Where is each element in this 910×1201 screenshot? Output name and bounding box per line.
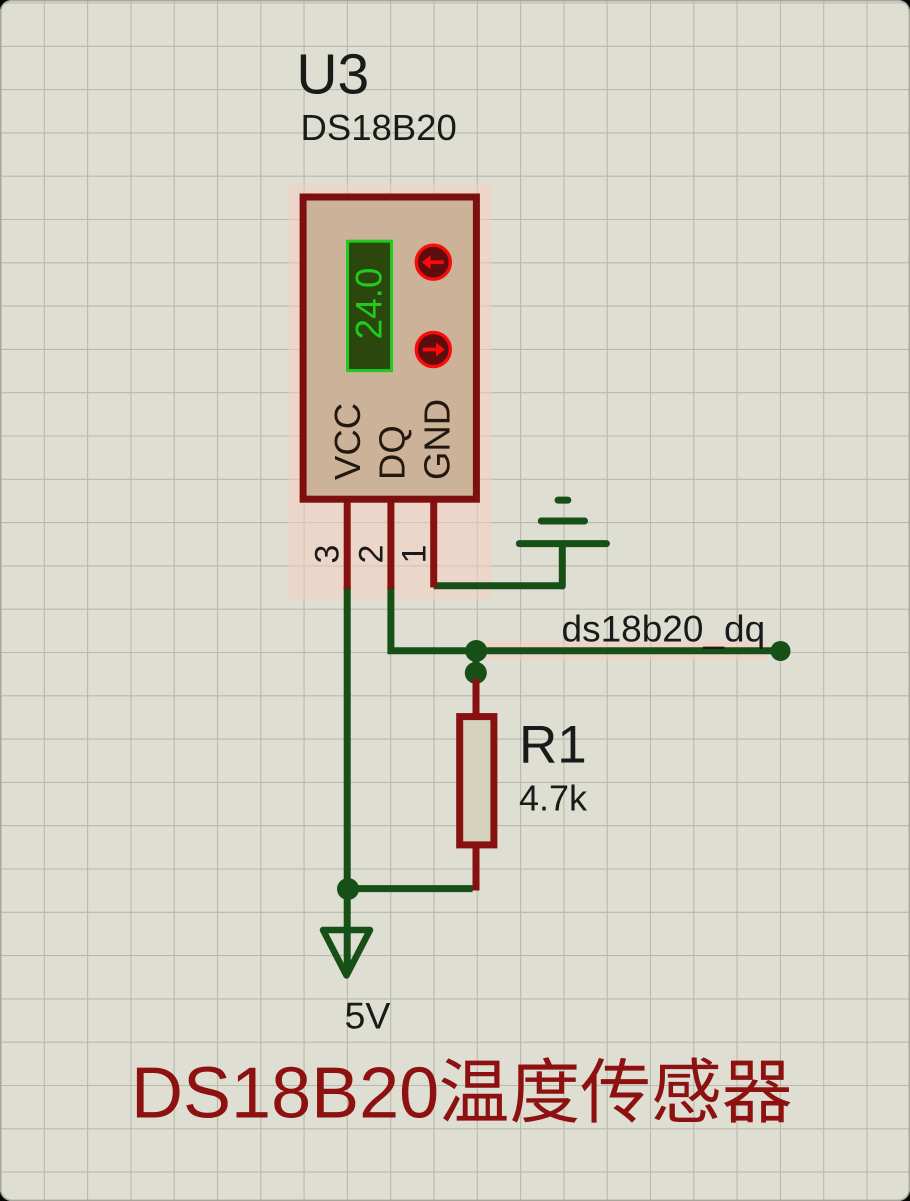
svg-text:DQ: DQ xyxy=(372,425,413,480)
wire: U3 pin 2 to net ds18b20_dq xyxy=(391,586,781,651)
wire: U3 pin 1 to ground xyxy=(434,582,563,589)
svg-text:24.0: 24.0 xyxy=(349,267,390,339)
title: 温度传感器 (CJK glyph outlines) xyxy=(441,1057,790,1123)
svg-text:ds18b20_dq: ds18b20_dq xyxy=(562,609,766,650)
resistor R1 pin top xyxy=(473,679,480,716)
U3 pin 1 (GND) xyxy=(430,499,437,588)
svg-text:3: 3 xyxy=(309,545,347,564)
svg-text:U3: U3 xyxy=(296,43,369,107)
junction dot (5V rail) xyxy=(337,878,359,900)
U3 down button xyxy=(416,333,450,367)
wire: resistor R1 to 5V rail xyxy=(348,885,473,892)
U3 pin 2 (DQ) xyxy=(387,499,394,589)
U3 pin 3 (VCC) xyxy=(344,499,351,589)
U3 up button xyxy=(416,245,450,279)
component U3 selection highlight xyxy=(289,185,493,600)
resistor R1 body xyxy=(460,717,494,845)
svg-text:DS18B20: DS18B20 xyxy=(131,1054,439,1134)
svg-text:5V: 5V xyxy=(345,995,391,1037)
svg-text:GND: GND xyxy=(416,399,457,480)
svg-text:1: 1 xyxy=(395,545,433,564)
svg-text:R1: R1 xyxy=(519,716,587,775)
wire: junction to resistor R1 xyxy=(473,651,480,676)
net ds18b20_dq wire highlight xyxy=(470,641,768,661)
junction dot (net dq / R1) xyxy=(465,640,487,662)
component U3 body xyxy=(303,197,476,499)
svg-text:2: 2 xyxy=(353,545,391,564)
resistor R1 pin bottom xyxy=(473,845,480,891)
power terminal 5V arrow xyxy=(323,930,370,976)
U3 LCD display xyxy=(348,241,392,370)
junction dot (R1 top) xyxy=(465,662,487,684)
svg-text:DS18B20: DS18B20 xyxy=(301,107,457,148)
svg-text:VCC: VCC xyxy=(327,403,368,480)
svg-text:4.7k: 4.7k xyxy=(519,778,588,819)
wire: U3 pin 3 to 5V rail xyxy=(344,586,351,972)
ground symbol xyxy=(519,500,606,586)
terminal dot: net ds18b20_dq end xyxy=(771,641,791,661)
